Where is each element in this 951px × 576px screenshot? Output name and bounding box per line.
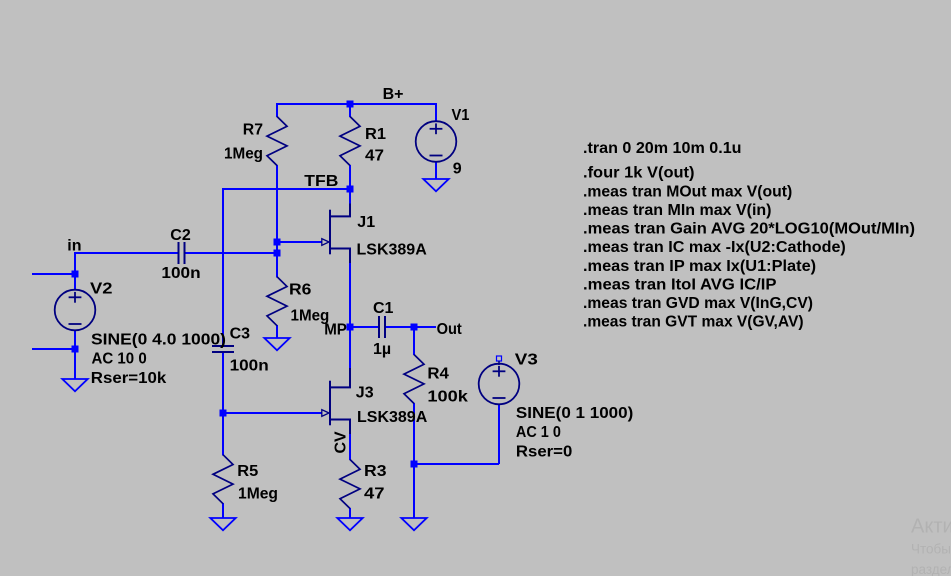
svg-text:C2: C2 [170, 227, 191, 244]
svg-text:100n: 100n [161, 265, 200, 282]
wire V2 to ground [74, 349, 76, 380]
capacitor C2 [161, 227, 200, 282]
junction R4 / V3 / ground [411, 461, 418, 468]
svg-text:R7: R7 [243, 122, 263, 139]
wire R4 bottom lead [413, 403, 415, 464]
svg-text:100n: 100n [230, 357, 269, 374]
svg-text:47: 47 [364, 486, 385, 503]
capacitor C1 [373, 300, 394, 358]
ground under R6 [264, 338, 289, 350]
junction MP [347, 324, 354, 331]
wire V2 top lead [74, 274, 76, 291]
svg-text:LSK389A: LSK389A [357, 409, 428, 426]
wire V1 top lead [435, 103, 437, 122]
svg-text:Чтобы активировать: Чтобы активировать [911, 542, 951, 557]
svg-text:1Meg: 1Meg [224, 145, 263, 162]
wire J3 source to R3 [349, 434, 351, 460]
open pin square V3 plus terminal [497, 356, 502, 365]
svg-text:B+: B+ [383, 86, 404, 103]
wire V2 minus stub [32, 348, 75, 350]
svg-text:.meas tran GVT max V(GV,AV): .meas tran GVT max V(GV,AV) [583, 314, 804, 331]
junction V2 plus [72, 271, 79, 278]
svg-text:Rser=10k: Rser=10k [91, 370, 167, 387]
wire V2 plus stub [32, 273, 75, 275]
svg-text:Out: Out [437, 321, 463, 338]
junction C3 / J3 gate / R5 [220, 410, 227, 417]
wire MP to C1 [350, 326, 379, 328]
svg-text:.meas tran Gain AVG 20*LOG10(M: .meas tran Gain AVG 20*LOG10(MOut/MIn) [583, 221, 915, 238]
svg-text:J1: J1 [357, 214, 375, 231]
wire R5 bottom lead [222, 503, 224, 519]
junction TFB / R1 / J1 drain [347, 186, 354, 193]
wire R5 top lead [222, 413, 224, 456]
transistor J3 LSK389A [322, 375, 428, 435]
junction V2 minus [72, 346, 79, 353]
wire in net [74, 252, 179, 254]
wire J1 source blue [349, 263, 351, 328]
node CV (rotated) [333, 431, 350, 454]
svg-text:AC 1 0: AC 1 0 [516, 424, 561, 441]
svg-text:.tran 0 20m 10m 0.1u: .tran 0 20m 10m 0.1u [583, 140, 742, 157]
resistor R6 [267, 277, 329, 326]
svg-text:Активация Windows: Активация Windows [911, 516, 951, 538]
svg-text:.meas tran IP max Ix(U1:Plate): .meas tran IP max Ix(U1:Plate) [583, 258, 816, 275]
wire J1 source to MP [349, 249, 351, 328]
svg-text:V1: V1 [452, 107, 470, 124]
wire C1 to Out junction [384, 326, 414, 328]
voltage source V2 [55, 280, 226, 387]
ground under V1 [423, 179, 448, 191]
wire R6 bottom lead [276, 325, 278, 339]
spice directives text block [583, 140, 915, 331]
wire J1 gate [276, 241, 322, 243]
ground under R4/V3 [401, 518, 426, 530]
resistor R4 [404, 355, 468, 406]
wire junction to ground [413, 464, 415, 519]
junction C2 / R7 node [274, 250, 281, 257]
wire R1 bottom lead [349, 165, 351, 190]
wire J3 gate [222, 412, 322, 414]
wire Out label lead [414, 326, 436, 328]
svg-text:V3: V3 [515, 352, 538, 369]
wire C2 right [184, 252, 278, 254]
node B+ [383, 86, 404, 103]
svg-text:9: 9 [453, 161, 462, 178]
resistor R1 [340, 117, 386, 166]
junction B+ / R1 [347, 101, 354, 108]
node TFB [304, 173, 338, 190]
svg-text:1µ: 1µ [373, 341, 391, 358]
wire J3 drain [349, 327, 351, 370]
svg-text:R1: R1 [365, 126, 386, 143]
resistor R3 [340, 460, 387, 509]
wire V3 bottom lead [498, 404, 500, 464]
junction Out / R4 [411, 324, 418, 331]
wire TFB horizontal [222, 188, 350, 190]
svg-text:R5: R5 [237, 463, 258, 480]
wire C3 bottom [222, 352, 224, 414]
svg-text:R6: R6 [289, 281, 312, 298]
svg-text:Rser=0: Rser=0 [516, 443, 572, 460]
wire TFB vertical to C3 [222, 188, 224, 347]
svg-text:1Meg: 1Meg [238, 486, 278, 503]
svg-text:CV: CV [333, 431, 350, 454]
svg-text:V2: V2 [90, 280, 113, 297]
svg-text:R3: R3 [364, 463, 387, 480]
voltage source V1 [416, 107, 470, 178]
svg-text:.meas tran MIn max V(in): .meas tran MIn max V(in) [583, 202, 772, 219]
node in [67, 238, 81, 255]
wire J3 drain navy [349, 368, 351, 388]
ground under V2 [62, 379, 87, 391]
junction gate J1 / R7 [274, 239, 281, 246]
svg-text:100k: 100k [427, 389, 468, 406]
svg-text:in: in [67, 238, 81, 255]
svg-text:47: 47 [365, 147, 384, 164]
svg-text:.meas tran ItoI AVG IC/IP: .meas tran ItoI AVG IC/IP [583, 276, 777, 293]
resistor R7 [224, 117, 287, 166]
svg-text:MP: MP [324, 322, 347, 339]
wire R7 to gate node [276, 165, 278, 278]
svg-text:.four 1k V(out): .four 1k V(out) [583, 165, 695, 182]
wire R3 bottom lead [349, 508, 351, 519]
watermark activation text [911, 516, 951, 576]
resistor R5 [213, 455, 278, 504]
voltage source V3 [479, 352, 634, 461]
svg-text:J3: J3 [356, 385, 374, 402]
ground under R5 [210, 518, 235, 530]
wire B+ rail [276, 103, 436, 105]
wire V1 bottom lead [435, 162, 437, 180]
svg-text:разделу парам: разделу парам [911, 562, 951, 576]
wire R4 top lead [413, 326, 415, 355]
node MP [324, 322, 347, 339]
svg-text:R4: R4 [427, 366, 449, 383]
wire V2 bottom lead [74, 330, 76, 349]
svg-text:.meas tran MOut max V(out): .meas tran MOut max V(out) [583, 183, 792, 200]
svg-text:TFB: TFB [304, 173, 338, 190]
wire R7 top lead [276, 103, 278, 117]
capacitor C3 [212, 326, 269, 375]
wire in corner down [74, 252, 76, 274]
transistor J1 LSK389A [322, 204, 427, 264]
svg-text:LSK389A: LSK389A [357, 242, 428, 259]
wire R1 top lead [349, 103, 351, 117]
node Out [437, 321, 463, 338]
svg-text:SINE(0 1 1000): SINE(0 1 1000) [516, 405, 633, 422]
wire bottom junction to V3 [414, 463, 499, 465]
svg-text:C1: C1 [373, 300, 394, 317]
svg-text:AC 10 0: AC 10 0 [92, 351, 147, 368]
svg-text:SINE(0 4.0 1000): SINE(0 4.0 1000) [91, 331, 226, 348]
svg-text:C3: C3 [230, 326, 251, 343]
svg-text:.meas tran GVD max V(InG,CV): .meas tran GVD max V(InG,CV) [583, 295, 813, 312]
wire J1 drain [349, 189, 351, 205]
wire J3 source navy [349, 420, 351, 437]
ground under R3 [337, 518, 362, 530]
svg-text:.meas tran IC max -Ix(U2:Catho: .meas tran IC max -Ix(U2:Cathode) [583, 239, 846, 256]
